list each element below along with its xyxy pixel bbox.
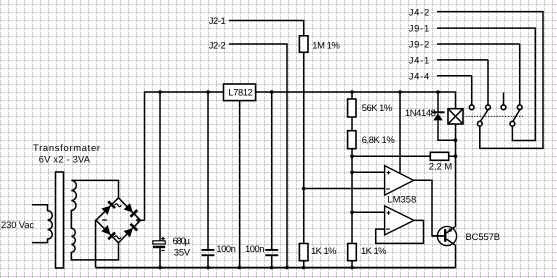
svg-text:1K 1%: 1K 1% [311,245,337,256]
svg-text:J9-2: J9-2 [409,38,430,49]
svg-text:J2-1: J2-1 [209,15,226,26]
svg-text:100n: 100n [245,243,265,254]
svg-text:J9-1: J9-1 [409,22,430,33]
svg-text:L7812: L7812 [228,86,253,97]
svg-text:Transformater: Transformater [33,142,100,153]
svg-text:1N4148: 1N4148 [405,107,436,118]
svg-text:J4-4: J4-4 [409,70,430,81]
svg-text:J4-1: J4-1 [409,54,430,65]
svg-text:LM358: LM358 [387,193,416,204]
svg-text:6V x2 - 3VA: 6V x2 - 3VA [39,153,91,164]
svg-text:35V: 35V [174,246,191,257]
svg-text:J4-2: J4-2 [409,6,430,17]
svg-text:2,2 M: 2,2 M [429,161,453,172]
svg-text:230 Vac: 230 Vac [1,219,34,230]
svg-text:J2-2: J2-2 [209,39,226,50]
svg-text:6,8K 1%: 6,8K 1% [362,134,395,145]
svg-text:680µ: 680µ [173,235,191,246]
svg-text:56K 1%: 56K 1% [362,102,393,113]
svg-text:1M 1%: 1M 1% [312,39,340,50]
svg-text:100n: 100n [216,243,236,254]
svg-text:BC557B: BC557B [466,231,501,242]
svg-text:1K 1%: 1K 1% [361,245,387,256]
